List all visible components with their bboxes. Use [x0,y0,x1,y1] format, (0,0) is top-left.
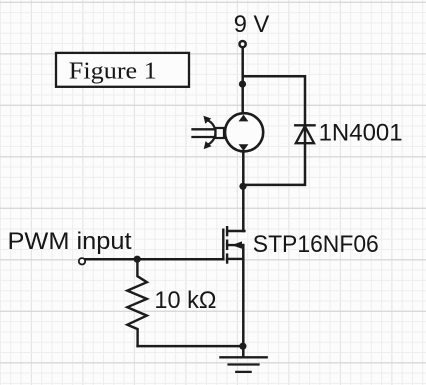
svg-text:Figure 1: Figure 1 [69,58,157,85]
svg-text:STP16NF06: STP16NF06 [253,231,379,258]
svg-text:9 V: 9 V [234,11,269,38]
svg-text:10 kΩ: 10 kΩ [154,287,216,314]
svg-text:PWM input: PWM input [8,228,132,255]
svg-text:1N4001: 1N4001 [319,120,403,147]
